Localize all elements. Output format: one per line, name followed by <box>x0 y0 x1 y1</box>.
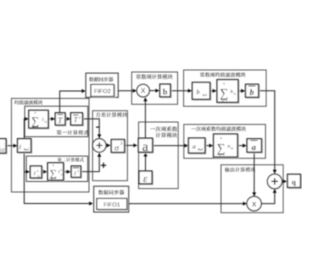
wire: I_LD input to I_Buf <box>6 145 17 147</box>
svg-text:x: x <box>252 198 257 208</box>
multiplier X of constant-term module <box>137 84 150 97</box>
module box: 方差计算模块 variance calculation module <box>93 111 128 181</box>
block summation2 sum of I-squared <box>49 164 65 181</box>
wire: I_Buf up to row1 summation input <box>24 119 28 139</box>
block b-bar (mean constant term) <box>246 85 259 98</box>
block summation3 sum of b(i,j) <box>218 81 239 104</box>
label: 第二计算模式 <box>57 158 83 162</box>
label: 方差计算模块 <box>96 112 128 117</box>
wire: adder to output q <box>282 180 286 182</box>
wire: I-squared-bar to subtractor plus input <box>81 153 100 171</box>
label: 常数项计算模块 <box>136 74 173 79</box>
module box: 常数项均值滤波模块 constant-term mean filter module <box>184 70 267 106</box>
block FIFO2 <box>92 85 115 97</box>
sub-box: 第二计算模式 second calculation mode row <box>26 156 87 181</box>
block T-bar (mean) <box>56 114 66 126</box>
wire: a-bar down to output multiplier x <box>253 152 255 196</box>
svg-text:b: b <box>163 88 168 97</box>
label: 计算模块 (line 2) <box>156 133 177 138</box>
svg-text:X: X <box>141 88 146 95</box>
wire: summation1 to T-bar block <box>48 118 54 120</box>
block b_buf <box>193 83 211 100</box>
wire: branch into I-squared block <box>24 171 29 173</box>
block I-squared <box>31 167 42 179</box>
module box: 均值滤波模块 mean filtering module <box>11 98 89 192</box>
output multiplier x <box>247 196 261 210</box>
block I-squared-bar (mean of I squared) <box>72 167 81 178</box>
wire: a_buf to summation4 <box>205 145 212 147</box>
svg-text:i,j: i,j <box>233 93 235 96</box>
block FIFO1 <box>98 199 128 210</box>
label: 常数项均值滤波模块 <box>200 72 245 77</box>
sync box: 数据同步器 data synchronizer around FIFO1 <box>94 186 129 212</box>
label: 一次项系数均值滤波模块 <box>191 126 246 131</box>
svg-text:i,j: i,j <box>44 121 46 124</box>
svg-text:b: b <box>250 87 255 97</box>
module box: 常数项计算模块 constant-term calculation module <box>132 72 178 104</box>
svg-text:i,j: i,j <box>61 173 63 176</box>
label: 一次项系数 (line 1) <box>150 126 177 131</box>
wire: block a up to multiplier X bottom <box>144 98 146 138</box>
svg-text:i,j=1: i,j=1 <box>51 177 57 180</box>
svg-text:Buf: Buf <box>24 147 30 151</box>
output adder + <box>267 174 282 189</box>
wire: T-bar tap up to FIFO2 input <box>60 91 85 113</box>
wire: output multiplier x to adder bottom input <box>261 190 274 204</box>
block q (corrected output) <box>288 175 301 188</box>
svg-text:Buf: Buf <box>198 147 204 151</box>
label: 数据同步器 (FIFO1) <box>98 190 124 195</box>
block summation1 sum of I(i,j) <box>30 111 49 129</box>
wire: summation3 to b-bar block <box>238 90 244 92</box>
block a_buf <box>189 139 206 154</box>
svg-text:ε: ε <box>143 173 148 185</box>
block sigma-squared (variance) <box>112 140 125 153</box>
wire: summation4 to a-bar block <box>238 145 246 147</box>
block epsilon <box>140 172 153 185</box>
module box: 一次项系数均值滤波模块 gain-coefficient mean filter module <box>184 124 266 158</box>
wire: I_Buf down to FIFO1 input <box>24 152 92 203</box>
minus sign at subtractor top input <box>96 126 100 128</box>
block a (gain coefficient) <box>139 139 153 153</box>
block a-bar (mean gain) <box>248 140 263 153</box>
wire: FIFO2 output to multiplier X <box>118 90 136 92</box>
wire: sigma-squared to block a <box>125 144 137 146</box>
svg-text:a: a <box>252 142 257 152</box>
svg-text:i,j: i,j <box>38 175 40 178</box>
svg-text:i,j: i,j <box>231 147 233 150</box>
wire: T-bar to T-bar-squared block <box>65 118 70 120</box>
wire: block a to a_buf <box>153 145 188 147</box>
wire: T-bar-squared to subtractor minus input <box>83 119 100 138</box>
wire: multiplier X to block b <box>149 90 158 92</box>
svg-text:σ: σ <box>114 142 119 152</box>
wire: I-squared to summation2 <box>42 171 47 173</box>
wire: epsilon to block a <box>145 153 147 171</box>
svg-text:FIFO2: FIFO2 <box>94 89 111 95</box>
block T-bar-squared <box>72 114 84 126</box>
svg-text:2: 2 <box>120 141 122 146</box>
label: 数据同步器 (FIFO2) <box>89 77 113 82</box>
wire: block b to block b_buf <box>170 90 191 92</box>
wire: b_buf to summation3 <box>210 90 216 92</box>
svg-text:a: a <box>142 139 148 154</box>
label: 第一计算模式 <box>57 130 89 135</box>
sync box: 数据同步器 data synchronizer around FIFO2 <box>86 73 118 97</box>
block b (constant term) <box>161 85 172 98</box>
subtractor (+/-) of variance module <box>93 139 106 152</box>
module box: 输出计算模块 output calculation module <box>221 165 283 213</box>
svg-text:T: T <box>58 116 63 125</box>
wire: summation2 to I-squared-bar <box>63 171 70 173</box>
wire: b-bar to output adder top input <box>259 91 275 173</box>
module box: 一次项系数计算模块 gain-coefficient calculation module <box>139 122 179 189</box>
block I_Buf <box>18 140 32 154</box>
label: 输出计算模块 <box>225 167 255 172</box>
wire: FIFO1 output to output multiplier x <box>129 203 247 205</box>
svg-text:FIFO1: FIFO1 <box>103 202 120 208</box>
label: 均值滤波模块 <box>14 100 42 104</box>
block summation4 sum of a(i,j) <box>214 135 238 158</box>
svg-text:2: 2 <box>79 116 81 120</box>
plus sign at subtractor bottom input <box>101 163 106 168</box>
block I_LD (input, clipped at left edge) <box>0 140 7 154</box>
sub-box: 第一计算模式 first calculation mode row <box>25 106 88 137</box>
wire: subtractor to sigma-squared block <box>106 144 110 146</box>
